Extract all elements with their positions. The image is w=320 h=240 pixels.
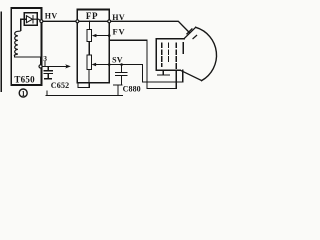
junction dot (focus wiper) (108, 34, 111, 37)
electrode G3 (dashed) (175, 43, 177, 70)
wire: R screen bottom to block bottom (88, 70, 90, 83)
ground of C880 (114, 85, 122, 95)
cathode ground (158, 70, 170, 75)
terminal circle (HV output of T650) (40, 20, 43, 23)
FP block bottom tab (notch) (78, 83, 89, 88)
wiper arrow (screen pot) (92, 63, 143, 66)
wire: HV to R focus top (88, 21, 90, 29)
capacitor C880 (116, 65, 127, 85)
capacitor C652 (44, 66, 52, 78)
border line (left edge of enclosing box, clipped) (0, 12, 2, 91)
FP block outline (77, 10, 109, 83)
wire: diode anode down to winding (20, 19, 22, 30)
svg-text:HV: HV (112, 13, 125, 22)
transformer T650 box (11, 8, 41, 85)
junction dot (C880 tap) (120, 63, 123, 66)
wiper arrow (focus pot) (92, 34, 109, 37)
svg-text:SV: SV (112, 56, 123, 65)
resistor R focus (upper pot body) (87, 29, 91, 41)
svg-text:HV: HV (45, 12, 58, 21)
terminal mark (circled 1) (19, 89, 27, 98)
HV wire to CRT anode (43, 21, 190, 32)
winding (coil) of T650 (14, 30, 20, 55)
terminal circle (FP left) (76, 20, 79, 23)
svg-text:C880: C880 (123, 85, 141, 94)
CRT funnel bottom slant (180, 70, 201, 80)
svg-text:T650: T650 (14, 75, 35, 85)
pin 3 tick (44, 62, 46, 67)
svg-text:C652: C652 (51, 81, 70, 90)
CRT faceplate arc (196, 27, 217, 80)
ground bar of C652 (45, 78, 52, 80)
diode box (24, 13, 37, 26)
wire with arrow (pin 3 output) (42, 65, 67, 67)
wire: R focus bottom to R screen top (88, 42, 90, 56)
diode (HV rectifier) (21, 16, 40, 23)
funnel inner tick (193, 35, 197, 38)
SV output wire (143, 65, 183, 82)
FV output wire (109, 40, 176, 88)
anode contact bar (187, 29, 192, 34)
junction dot (screen wiper at block edge) (108, 63, 111, 66)
electrode G4 (182, 42, 184, 53)
resistor R screen (lower pot body) (87, 55, 91, 70)
electrode G1 (dashed) (161, 43, 163, 66)
CRT neck outline (156, 39, 184, 70)
terminal circle (FP right) (108, 20, 111, 23)
svg-text:1: 1 (22, 90, 26, 98)
CRT funnel top slant (184, 27, 196, 38)
chassis ground line (45, 91, 122, 95)
svg-text:FP: FP (86, 11, 98, 21)
terminal pin 3 circle (39, 65, 42, 68)
wire: winding bottom to pin 3 (14, 55, 40, 65)
svg-text:FV: FV (113, 26, 126, 36)
electrode G2 (dashed) (168, 43, 170, 63)
svg-text:3: 3 (43, 54, 47, 63)
